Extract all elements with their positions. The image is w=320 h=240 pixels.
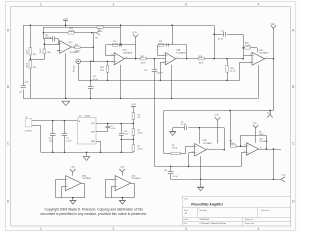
svg-text:9: 9 bbox=[58, 43, 59, 45]
svg-text:Copyright 2004 Wade D. Peterso: Copyright 2004 Wade D. Peterson. Copying… bbox=[45, 208, 144, 212]
wire C5 feedback branch bbox=[213, 34, 252, 60]
svg-text:Out2: Out2 bbox=[282, 173, 286, 176]
resistor R1 bias bbox=[132, 145, 143, 152]
svg-text:12: 12 bbox=[244, 151, 246, 153]
resistor R4 bbox=[230, 111, 247, 148]
svg-text:R15: R15 bbox=[33, 54, 36, 56]
op-amp U1D bbox=[114, 50, 133, 65]
svg-text:U2C: U2C bbox=[259, 138, 263, 140]
svg-text:TL072ACN: TL072ACN bbox=[259, 51, 269, 54]
wire U1B out bbox=[265, 58, 274, 59]
wire tap to R16 bbox=[30, 59, 44, 61]
ground U2A bbox=[70, 201, 76, 205]
loop label R3 bbox=[259, 131, 264, 136]
wire U2 gnd pin bbox=[96, 141, 101, 152]
title block lines bbox=[183, 196, 291, 226]
svg-text:R13: R13 bbox=[33, 67, 36, 69]
svg-text:GND: GND bbox=[91, 141, 96, 143]
op-amp U2C bbox=[247, 138, 269, 155]
svg-text:TL072ACN: TL072ACN bbox=[176, 51, 186, 54]
svg-text:TL072ACN: TL072ACN bbox=[82, 177, 92, 180]
power port +12V stage2 bbox=[132, 32, 138, 59]
wire bias node2 bbox=[121, 135, 134, 144]
svg-text:R17: R17 bbox=[141, 56, 144, 58]
svg-text:0.1 uF: 0.1 uF bbox=[181, 124, 187, 126]
wire R22 feedback bbox=[43, 32, 92, 33]
wire U1C pin4 stem bbox=[65, 53, 67, 98]
svg-text:Number: Number bbox=[200, 209, 208, 212]
svg-text:4: 4 bbox=[258, 227, 260, 231]
svg-text:File:: File: bbox=[184, 223, 188, 225]
connector J1 bbox=[24, 117, 41, 133]
resistor R17 bbox=[141, 56, 147, 64]
svg-text:Revision: Revision bbox=[261, 210, 270, 212]
resistor R13 bbox=[26, 48, 36, 57]
svg-text:U1A: U1A bbox=[176, 49, 181, 52]
wire stage4 to block bbox=[164, 59, 274, 112]
op-amp U2D bbox=[115, 175, 141, 190]
svg-text:0.1 uF: 0.1 uF bbox=[173, 176, 178, 178]
capacitor C2 feedback bbox=[181, 122, 187, 130]
svg-text:0.1 uF: 0.1 uF bbox=[66, 140, 72, 142]
svg-text:3.3 uF: 3.3 uF bbox=[124, 134, 129, 136]
ground U2B feedback bbox=[170, 128, 176, 136]
svg-text:6: 6 bbox=[250, 61, 251, 63]
wire U2B pin stem bbox=[200, 156, 201, 180]
node dot T1/x30 bbox=[30, 25, 31, 26]
svg-text:LT1054: LT1054 bbox=[84, 115, 90, 117]
svg-text:0.1 uF: 0.1 uF bbox=[111, 128, 116, 130]
wire U2C out bbox=[259, 148, 282, 149]
wire U2 ref pin bbox=[96, 131, 108, 133]
svg-text:13: 13 bbox=[244, 145, 246, 147]
svg-text:PhonoIn: PhonoIn bbox=[74, 65, 76, 72]
wire T2 corner to C15 branch bbox=[43, 27, 44, 39]
svg-text:C13: C13 bbox=[25, 81, 28, 83]
op-amp U2C loop bbox=[240, 135, 267, 150]
op-amp U1B bbox=[252, 50, 269, 66]
connector P1 phono jack bbox=[74, 59, 81, 72]
svg-text:R23: R23 bbox=[75, 45, 78, 47]
svg-text:C:\Phono1\..\Sheet1.SchDoc: C:\Phono1\..\Sheet1.SchDoc bbox=[200, 222, 227, 225]
capacitor C13 bbox=[18, 81, 28, 93]
wire U2A gnd stem bbox=[72, 197, 73, 201]
wire left column bbox=[23, 25, 25, 98]
resistor R18 bbox=[199, 56, 205, 64]
node dot divider tap bbox=[30, 58, 31, 59]
wire divider column bbox=[30, 25, 32, 98]
svg-text:204 K: 204 K bbox=[26, 62, 28, 67]
svg-text:C18: C18 bbox=[159, 41, 162, 43]
wire supply rail bbox=[37, 120, 78, 121]
svg-text:TL072ACN: TL072ACN bbox=[132, 177, 142, 180]
svg-text:51.1 K: 51.1 K bbox=[230, 70, 236, 72]
svg-text:C19: C19 bbox=[144, 70, 147, 72]
wire U2A feedback bbox=[56, 179, 85, 197]
capacitor C21 bbox=[164, 166, 178, 179]
svg-text:4: 4 bbox=[258, 2, 260, 6]
svg-text:C16: C16 bbox=[113, 41, 116, 43]
svg-text:2: 2 bbox=[113, 227, 115, 231]
svg-text:204 K: 204 K bbox=[40, 48, 42, 53]
svg-text:205 K: 205 K bbox=[199, 62, 204, 64]
op-amp U2B bbox=[195, 140, 213, 156]
svg-text:1: 1 bbox=[177, 57, 178, 59]
svg-text:205 K: 205 K bbox=[259, 134, 264, 136]
capacitor C7 bbox=[106, 124, 116, 132]
svg-text:U1D: U1D bbox=[123, 50, 128, 52]
svg-text:0.47 uF: 0.47 uF bbox=[157, 73, 164, 75]
capacitor C5 bbox=[217, 30, 225, 40]
capacitor C10 bbox=[119, 124, 129, 153]
svg-text:204 K: 204 K bbox=[26, 49, 28, 54]
svg-text:U1C: U1C bbox=[69, 42, 73, 44]
wire bias tap U1A bbox=[160, 62, 166, 81]
wire bus A bbox=[78, 80, 240, 82]
wire minus input bbox=[44, 44, 60, 46]
svg-text:10: 10 bbox=[57, 50, 59, 52]
op-amp U1D loop bbox=[106, 45, 136, 56]
wire U2C plus input bbox=[242, 152, 247, 166]
power port +12V U2D bbox=[119, 167, 125, 176]
svg-text:.47 uF: .47 uF bbox=[217, 38, 223, 40]
resistor R15 bbox=[26, 61, 36, 69]
op-amp U2A bbox=[66, 174, 92, 190]
power port +12V U2A bbox=[70, 167, 76, 176]
svg-text:205 K: 205 K bbox=[75, 51, 80, 53]
svg-text:34.0 K: 34.0 K bbox=[138, 132, 144, 134]
wire U2B plus input bbox=[189, 153, 195, 167]
svg-text:TL072ACN: TL072ACN bbox=[123, 51, 133, 54]
resistor R21 bbox=[97, 26, 104, 33]
wire x214 vertical bbox=[214, 25, 216, 59]
svg-text:9: 9 bbox=[192, 145, 193, 147]
svg-text:1: 1 bbox=[40, 2, 42, 6]
copyright text bbox=[41, 208, 147, 217]
svg-text:12: 12 bbox=[111, 62, 113, 64]
svg-text:1: 1 bbox=[40, 227, 42, 231]
pin numbers U2B bbox=[192, 145, 209, 154]
feedback R/C on U1D loop bbox=[113, 41, 122, 46]
svg-text:+12V: +12V bbox=[70, 167, 75, 169]
connector output port Out1 bbox=[271, 24, 276, 59]
pin numbers U1D bbox=[111, 54, 127, 64]
svg-text:+12V: +12V bbox=[131, 104, 136, 106]
power port U2C vcc bbox=[253, 123, 259, 143]
wire top bus T2 bbox=[43, 27, 121, 29]
test point TP1 bbox=[92, 30, 101, 39]
svg-text:R16: R16 bbox=[47, 52, 50, 54]
regulator U2 box bbox=[78, 115, 97, 144]
svg-text:TL072ACN: TL072ACN bbox=[203, 142, 213, 145]
svg-text:1.14 K: 1.14 K bbox=[245, 45, 251, 47]
wire feedback vertical bbox=[93, 33, 94, 62]
svg-text:+2.4 VDC: +2.4 VDC bbox=[24, 131, 33, 133]
wire U1A pin4 stem bbox=[171, 65, 172, 99]
resistor R14 shunt bbox=[100, 61, 109, 81]
ground bottom block bbox=[198, 179, 204, 190]
svg-text:14: 14 bbox=[126, 57, 128, 59]
svg-text:+12V: +12V bbox=[132, 32, 137, 34]
svg-text:29.4 K: 29.4 K bbox=[138, 148, 144, 150]
wire supply gnd bus bbox=[41, 152, 133, 153]
wire bias node1 bbox=[133, 119, 134, 128]
ground supply bbox=[83, 152, 90, 160]
power port +12V (VCC1) bbox=[63, 19, 68, 28]
wire out drop bbox=[273, 149, 274, 180]
resistor R23 bbox=[75, 45, 81, 53]
capacitor C19 series bbox=[144, 59, 164, 167]
svg-text:TL072ACN: TL072ACN bbox=[259, 140, 269, 143]
svg-text:document is permitted in any m: document is permitted in any medium, pro… bbox=[41, 212, 147, 216]
svg-text:14: 14 bbox=[260, 147, 262, 149]
resistor R2 block bbox=[171, 145, 181, 155]
resistor R19 shunt bbox=[226, 59, 236, 81]
power port TP5 +12V bbox=[214, 115, 220, 144]
test point TP9 bbox=[267, 110, 273, 118]
capacitor C8 bbox=[49, 121, 56, 153]
wire U2D gnd stem bbox=[122, 197, 123, 201]
wire bottom out row bbox=[171, 179, 281, 181]
ground U2D bbox=[119, 201, 125, 205]
pin numbers U1B bbox=[250, 54, 267, 63]
wire R2 to U2B bbox=[181, 146, 195, 153]
svg-text:1.96 K: 1.96 K bbox=[230, 143, 236, 145]
pin numbers U1C bbox=[57, 43, 74, 52]
wire U1D out bbox=[125, 58, 141, 59]
wire ground bus bbox=[23, 98, 258, 99]
svg-text:Sheet of: Sheet of bbox=[245, 218, 253, 221]
node dot T1/x172 bbox=[171, 25, 172, 26]
resistor R22 bbox=[68, 28, 75, 34]
svg-text:204 K: 204 K bbox=[69, 31, 75, 33]
wire U1D pin4 stem bbox=[120, 65, 121, 99]
wire bias row bbox=[155, 166, 242, 167]
wire bias bottom bbox=[133, 151, 135, 154]
svg-text:+12V: +12V bbox=[120, 167, 125, 169]
resistor R20 bbox=[242, 43, 257, 53]
ground arrow main bbox=[62, 101, 70, 105]
svg-text:3: 3 bbox=[185, 2, 187, 6]
resistor R3 bias bbox=[132, 113, 141, 120]
wire U1A out bbox=[176, 58, 199, 60]
wire bias tap U1B bbox=[240, 62, 253, 80]
wire U2B out bbox=[206, 149, 224, 151]
op-amp U1A loop bbox=[158, 25, 188, 59]
op-amp U1A bbox=[165, 49, 186, 65]
capacitor C15 bbox=[45, 34, 55, 41]
wire U1C output R23 bbox=[71, 47, 94, 48]
wire phono row bbox=[81, 61, 115, 62]
svg-text:3: 3 bbox=[185, 227, 187, 231]
wire stage2 feedback drop bbox=[120, 25, 121, 46]
wire block left feed bbox=[164, 111, 172, 154]
connector output port Out2 bbox=[281, 173, 285, 182]
svg-text:2: 2 bbox=[113, 2, 115, 6]
wire top bus T1 bbox=[23, 25, 214, 27]
svg-text:10: 10 bbox=[192, 152, 194, 154]
svg-text:5/29/2004: 5/29/2004 bbox=[200, 219, 210, 221]
svg-text:Drawn By:: Drawn By: bbox=[245, 222, 255, 225]
wire phono stem bbox=[78, 64, 80, 81]
pin numbers U1A bbox=[163, 54, 177, 64]
wire R18 to U1B bbox=[204, 58, 243, 59]
svg-text:.022 uF: .022 uF bbox=[45, 37, 52, 39]
svg-text:U2: U2 bbox=[79, 115, 81, 117]
wire U2D feedback bbox=[105, 179, 134, 197]
svg-text:U2D: U2D bbox=[132, 175, 136, 177]
wire R17 to U1A bbox=[146, 58, 165, 59]
wire U2 out pin bbox=[96, 123, 133, 124]
op-amp U2B loop bbox=[173, 127, 225, 151]
capacitor C9 bbox=[62, 121, 73, 153]
resistor R16 vertical bbox=[40, 39, 50, 59]
svg-text:J1: J1 bbox=[26, 117, 28, 119]
svg-text:1.96 K: 1.96 K bbox=[172, 148, 178, 150]
resistor R2 bias bbox=[132, 129, 143, 136]
svg-text:TP6: TP6 bbox=[164, 170, 167, 172]
svg-text:5: 5 bbox=[250, 54, 251, 56]
svg-text:TP1: TP1 bbox=[95, 38, 98, 40]
svg-text:205 K: 205 K bbox=[141, 62, 146, 64]
pin numbers U2C bbox=[244, 145, 262, 153]
svg-text:Phono/filter Amplifier: Phono/filter Amplifier bbox=[191, 203, 224, 207]
svg-text:13: 13 bbox=[111, 54, 113, 56]
wire J1 return bbox=[40, 126, 42, 153]
feedback R/C on U1A loop bbox=[159, 41, 169, 46]
svg-text:Date:: Date: bbox=[184, 218, 189, 221]
wire U1B pin4 stem bbox=[258, 65, 260, 98]
wire C15 branch bbox=[43, 39, 58, 45]
capacitor C17 shunt bbox=[88, 61, 99, 100]
op-amp U1C bbox=[60, 41, 79, 55]
wire plus stub bbox=[57, 50, 60, 52]
title block text bbox=[184, 198, 270, 226]
svg-text:R18: R18 bbox=[199, 56, 202, 58]
power port +12V bias bbox=[131, 104, 136, 113]
